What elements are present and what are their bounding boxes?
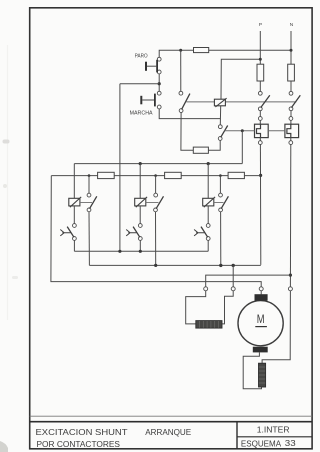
junction rail coil3 [207,162,210,165]
wire: K1a to economy resistor [181,113,193,151]
wire: coil K3 to delay contact [139,206,141,224]
wire: row segment R1-R2 [114,175,164,177]
svg-text:EXCITACION SHUNT: EXCITACION SHUNT [36,427,129,437]
wire: D1 to line A [73,240,75,251]
wire: PARO to junction [158,74,160,91]
contact K1b blade [221,126,228,138]
junction row tap 3 [219,174,222,177]
link coil K2 to contact [80,202,92,204]
scan artifact: faint page edge line [7,45,9,320]
wire: line A (delay contacts common) [74,250,208,252]
wire: coil feed from P at y59 [221,59,260,99]
wire: OL1 bottom stub [259,138,261,141]
svg-text:MARCHA: MARCHA [130,111,153,117]
wire: brush bottom to field loop [243,352,261,388]
wire: N feeder below fuse [290,81,292,91]
wire: line B (shorting contacts common) [89,264,260,266]
link coil K4 to contact [214,202,224,204]
resistor R1 (starting) [98,172,115,178]
terminal below OL1 [258,141,262,145]
pushbutton PARO button bar [145,62,147,71]
resistor R4 (coil economy) [193,147,208,153]
pushbutton PARO plunger [147,65,157,67]
svg-text:33: 33 [285,438,296,448]
coil K1 (contactor coil) [214,98,226,107]
wire: resistor to contact K1b [208,140,220,150]
contact S1 terminals [87,193,91,197]
delay contact D3 fork [194,230,204,236]
link line blade K1b to overloads [225,130,255,132]
svg-text:POR CONTACTORES: POR CONTACTORES [37,439,121,449]
coil K3 branch: wire rail to coil [139,164,141,199]
wire: coil supply rail [74,163,242,165]
wire: S1 to line B [88,212,90,266]
shorting contact S1: wire from row [88,176,90,194]
motor bottom brush block [253,347,268,353]
wire: into OL1 [259,120,261,124]
svg-text:1.INTER: 1.INTER [257,424,290,434]
wire: D2 to line A [139,240,141,251]
junction line B with S2 [154,264,157,267]
junction P line and coil feed [259,58,262,61]
link line between overloads [268,130,285,132]
delay contact D2 terminals [138,224,142,228]
pushbutton MARCHA plunger [142,99,154,101]
wire: row segment R2-R3 [181,175,228,177]
coil K4 [203,197,215,207]
pushbutton MARCHA contact bar [154,94,156,107]
resistor R2 (starting) [165,172,182,178]
pushbutton PARO (NC): terminals [157,57,161,61]
contact K1b (NO) terminals [218,125,222,129]
mechanical link line of contactor K1 [186,101,296,103]
wire: into OL2 [290,120,292,124]
contact K1d (N pole) terminals [289,91,293,95]
contact K1d blade [291,95,300,107]
terminal below OL2 [289,141,293,145]
motor terminal 4 [288,287,292,291]
wire: terminal 2 to starting resistor right [222,291,233,324]
title block right separator [237,436,312,438]
scan artifact: bottom-left grey blob [0,441,8,452]
junction below PARO [158,82,161,85]
title block top line [30,421,312,423]
fuse F1 (control rail) [194,48,209,53]
junction N vertical and armature top line [289,274,292,277]
overload relay OL2 (N) [285,124,299,137]
coil K2 [69,197,81,207]
contact S1 blade [90,196,97,208]
wire: row segment R3 to P vertical [244,175,260,177]
wire: K1c to overload OL1 [259,111,261,117]
overload relay OL1 (P) [255,124,269,137]
scan artifact: smudge left edge 3 [12,276,18,279]
delay contact D3 blade [201,227,208,238]
shorting contact S3: wire from row [219,176,221,194]
contact K1c blade [261,95,270,107]
contact K1a (NO) terminals [179,91,183,95]
svg-text:P: P [259,22,262,28]
terminal above OL1 [258,117,262,121]
junction line B with terminal 2 drop [232,264,235,267]
wire: terminal 1 to starting resistor left [186,291,206,324]
wire: D3 to line A [207,240,209,251]
contact K1c (P pole) terminals [258,91,262,95]
fuse F3 (N) [288,64,295,81]
wire: N vertical to field winding [262,291,290,363]
motor M armature circle [238,301,283,346]
wire: MARCHA bottom to coil bottom node [159,109,220,119]
wire: resistor row left segment [51,175,97,177]
contact S2 terminals [154,193,158,197]
wire: S3 to line B [220,212,222,266]
wire: control rail from PARO to N [159,50,291,57]
wire: terminal 1 line to N vertical [206,275,291,287]
delay contact D1 blade [67,227,74,238]
svg-text:PARO: PARO [135,54,148,60]
coil K2 branch: wire rail to coil [73,164,75,199]
motor underline [255,326,267,328]
junction row tap 2 [154,174,157,177]
resistor R3 (starting) [228,172,244,178]
motor terminal 3 [259,287,263,291]
delay contact D3 terminals [206,224,210,228]
wire: drop from link line to coil rail [241,131,243,164]
svg-text:M: M [257,312,265,326]
junction N line and rail [290,49,293,52]
delay contact D1 terminals [73,224,77,228]
junction row tap 1 [88,174,91,177]
coil K3 [135,197,147,207]
link coil K3 to contact [146,202,159,204]
pushbutton MARCHA button bar [140,96,142,105]
wire: K1d to overload OL2 [290,111,292,117]
field winding (filled) [259,363,266,387]
wire: OL2 bottom stub [290,138,292,141]
wire: OL2 long N vertical [289,145,291,287]
wire: P feeder below fuse [259,81,261,91]
motor top brush block [255,294,268,301]
contact S3 terminals [219,193,223,197]
shorting contact S2: wire from row [155,176,157,194]
junction line B with S3 [219,264,222,267]
delay contact D2 blade [133,227,140,238]
contact S2 blade [156,196,163,208]
junction P vertical and resistor row [259,174,262,177]
wire: P feeder upper [259,31,261,64]
motor terminal 2 [231,287,235,291]
wire: coil K4 to delay contact [207,206,209,224]
wire: drop line B to terminal 2 [232,265,234,286]
wire: branch to left vertical [120,83,159,85]
svg-text:ARRANQUE: ARRANQUE [145,427,191,437]
delay contact D2 fork [126,230,136,236]
wire: row left end down to armature line [51,176,261,287]
junction rail coil2 [139,162,142,165]
wire: N feeder upper [290,31,292,64]
contact S3 blade [221,196,228,208]
wire: terminal 3 to brush [260,291,262,295]
delay contact D1 fork [60,230,70,236]
wire: coil K2 to delay contact [73,206,75,224]
wire: OL1 to line B (long P vertical) [259,145,261,265]
wire: K1b top to coil bottom [219,106,221,125]
resistor R5 (starting resistor, filled) [196,321,222,329]
title block thin line [30,415,312,417]
scan artifact: smudge left edge 2 [3,184,7,188]
wire: blade branch from rail [180,50,182,91]
scan artifact: smudge left edge [3,140,10,144]
junction line A with D2 [139,250,142,253]
pushbutton PARO contact bar [156,60,158,73]
svg-text:ESQUEMA: ESQUEMA [241,438,281,448]
pushbutton MARCHA (NO): terminals [157,91,161,95]
fuse F2 (P) [257,64,264,81]
junction on rail at blade branch [179,49,182,52]
junction line A with left vertical [118,250,121,253]
svg-text:N: N [290,22,294,28]
wire: long left vertical [119,84,121,252]
coil K4 branch: wire rail to coil [207,164,209,199]
contact K1a blade [182,94,190,110]
terminal above OL2 [289,117,293,121]
title block divider [236,422,238,449]
junction link line to rail drop [241,129,244,132]
motor terminal 1 [204,287,208,291]
wire: S2 to line B [155,212,157,266]
